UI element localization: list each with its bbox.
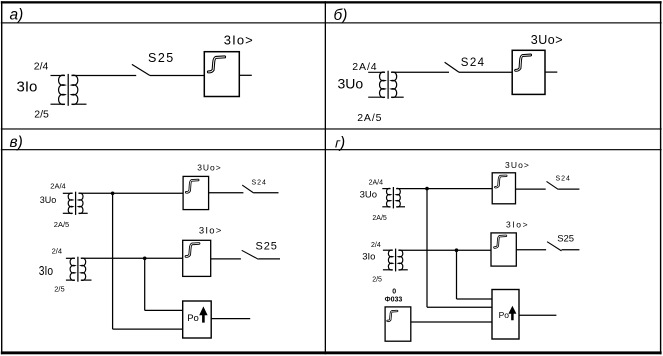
svg-text:б): б) <box>334 7 348 24</box>
svg-text:в): в) <box>10 134 23 151</box>
wire J2 branch to Po relay upper input <box>145 309 183 311</box>
switch S25 blade (open disconnect) <box>132 64 150 75</box>
svg-text:S24: S24 <box>461 57 486 69</box>
wire T5 to relay U6 with tap <box>396 188 492 190</box>
up arrow symbol in U8 <box>508 306 516 321</box>
header separator line below v) g) <box>1 149 662 150</box>
svg-text:2/4: 2/4 <box>52 247 62 256</box>
wire T2 to switch S24 <box>391 71 449 73</box>
wire T4 to relay U4 with tap <box>81 257 183 259</box>
switch S25 blade (open disconnect) <box>242 250 259 259</box>
svg-text:2А/4: 2А/4 <box>50 181 65 190</box>
svg-text:2А/4: 2А/4 <box>369 180 384 187</box>
svg-text:3Uo: 3Uo <box>338 76 364 92</box>
vertical wire J3 down to Po relay <box>426 189 428 308</box>
svg-text:2/5: 2/5 <box>372 277 382 284</box>
wire J4 branch to Po relay upper input <box>457 298 493 300</box>
switch S24 blade (open disconnect) <box>242 185 254 193</box>
overvoltage relay U3 (3Uo>) box <box>183 176 209 209</box>
overcurrent relay U1 (3Io>) box <box>204 52 239 97</box>
output wire from F1 to Po relay lower input <box>411 321 492 323</box>
svg-text:3Uo: 3Uo <box>40 195 57 205</box>
svg-text:2А/5: 2А/5 <box>372 215 387 222</box>
svg-text:3Io: 3Io <box>39 265 53 278</box>
output wire from U6 to S24 <box>516 188 546 190</box>
switch S25 blade (open disconnect) <box>547 242 561 251</box>
wire J3 branch to Po relay middle input <box>427 306 492 308</box>
svg-text:3Uo: 3Uo <box>360 189 377 200</box>
header separator line below a) b) <box>1 22 662 23</box>
saturation characteristic symbol in U2 <box>516 55 531 70</box>
output wire from U5 <box>211 318 250 320</box>
svg-text:S25: S25 <box>256 241 278 253</box>
wire after S25 <box>562 249 580 251</box>
overvoltage relay U2 (3Uo>) box <box>512 50 545 94</box>
switch S24 blade (open disconnect) <box>547 181 559 189</box>
output wire from U3 to S24 <box>209 192 244 194</box>
svg-text:Po: Po <box>187 313 199 324</box>
overvoltage relay U6 (3Uo>) box <box>492 173 515 204</box>
junction node J3 <box>425 187 429 191</box>
output wire from U8 <box>519 314 556 316</box>
overcurrent relay U4 (3Io>) box <box>183 240 211 276</box>
separator line above v) g) band <box>1 128 662 129</box>
svg-text:Po: Po <box>499 310 510 320</box>
wire T6 to relay U7 with tap <box>398 249 491 251</box>
svg-text:3Io>: 3Io> <box>224 32 254 47</box>
winding label 3Io (T4) <box>39 265 53 278</box>
svg-text:S24: S24 <box>556 176 571 183</box>
svg-text:Ф033: Ф033 <box>385 297 403 304</box>
switch S24 blade (open disconnect) <box>445 62 459 72</box>
svg-text:S25: S25 <box>557 233 574 244</box>
svg-text:S25: S25 <box>148 51 175 65</box>
saturation characteristic symbol in U4 <box>186 244 199 257</box>
power relay U5 (Po) box <box>183 301 212 338</box>
power relay U8 (Po) box <box>492 290 519 340</box>
overcurrent relay U7 (3Io>) box <box>491 233 516 266</box>
wire S24 to relay U2 <box>459 71 512 73</box>
svg-text:2/4: 2/4 <box>34 61 49 73</box>
svg-text:3Uo>: 3Uo> <box>197 162 222 172</box>
svg-text:2А/5: 2А/5 <box>54 220 69 229</box>
svg-text:S24: S24 <box>252 180 267 187</box>
outer frame bottom border <box>1 351 662 354</box>
svg-text:3Io: 3Io <box>17 78 38 95</box>
svg-text:2А/5: 2А/5 <box>357 112 382 124</box>
svg-text:3Io>: 3Io> <box>199 226 223 237</box>
svg-text:0: 0 <box>392 289 396 296</box>
outer frame right border <box>660 1 661 354</box>
saturation characteristic symbol in F1 <box>388 311 398 321</box>
wire after S25 <box>258 258 280 260</box>
up arrow symbol in U5 <box>199 306 207 322</box>
junction node J1 <box>111 192 115 196</box>
svg-text:3Io: 3Io <box>362 252 375 263</box>
svg-text:2/5: 2/5 <box>54 284 64 293</box>
vertical wire J1 down to Po relay <box>112 193 114 329</box>
outer frame left border <box>1 1 2 354</box>
output wire from U7 to S25 <box>516 249 546 251</box>
svg-text:2А/4: 2А/4 <box>352 61 377 73</box>
svg-text:3Uo>: 3Uo> <box>531 33 563 47</box>
vertical wire J2 down to Po relay <box>144 258 146 310</box>
wire J1 branch to Po relay lower input <box>113 328 183 330</box>
saturation characteristic symbol in U7 <box>494 236 506 248</box>
center vertical divider <box>325 1 326 354</box>
output wire from U4 to S25 <box>211 258 241 260</box>
outer frame top border <box>1 1 662 3</box>
output wire from U2 <box>545 71 557 73</box>
svg-text:): ) <box>338 135 345 152</box>
wire S25 to relay U1 <box>150 75 204 77</box>
svg-text:3Uo>: 3Uo> <box>505 160 530 170</box>
junction node J2 <box>143 257 147 261</box>
output wire from U1 <box>239 74 252 76</box>
zero-sequence filter F1 (F033) box <box>385 307 411 341</box>
saturation characteristic symbol in U6 <box>495 176 506 187</box>
wire after S24 <box>558 188 579 190</box>
saturation characteristic symbol in U1 <box>208 57 224 72</box>
wire after S24 <box>254 192 279 194</box>
saturation characteristic symbol in U3 <box>186 180 198 192</box>
svg-text:2/4: 2/4 <box>371 242 381 249</box>
svg-text:2/5: 2/5 <box>34 109 49 121</box>
label g) <box>334 136 342 151</box>
junction node J4 <box>455 248 459 252</box>
svg-text:а): а) <box>10 7 24 24</box>
wire T1 to switch S25 <box>72 75 137 77</box>
wire T3 to relay U3 with tap <box>79 192 184 194</box>
vertical wire J4 down to Po relay <box>456 250 458 299</box>
svg-text:3Io>: 3Io> <box>506 219 529 229</box>
